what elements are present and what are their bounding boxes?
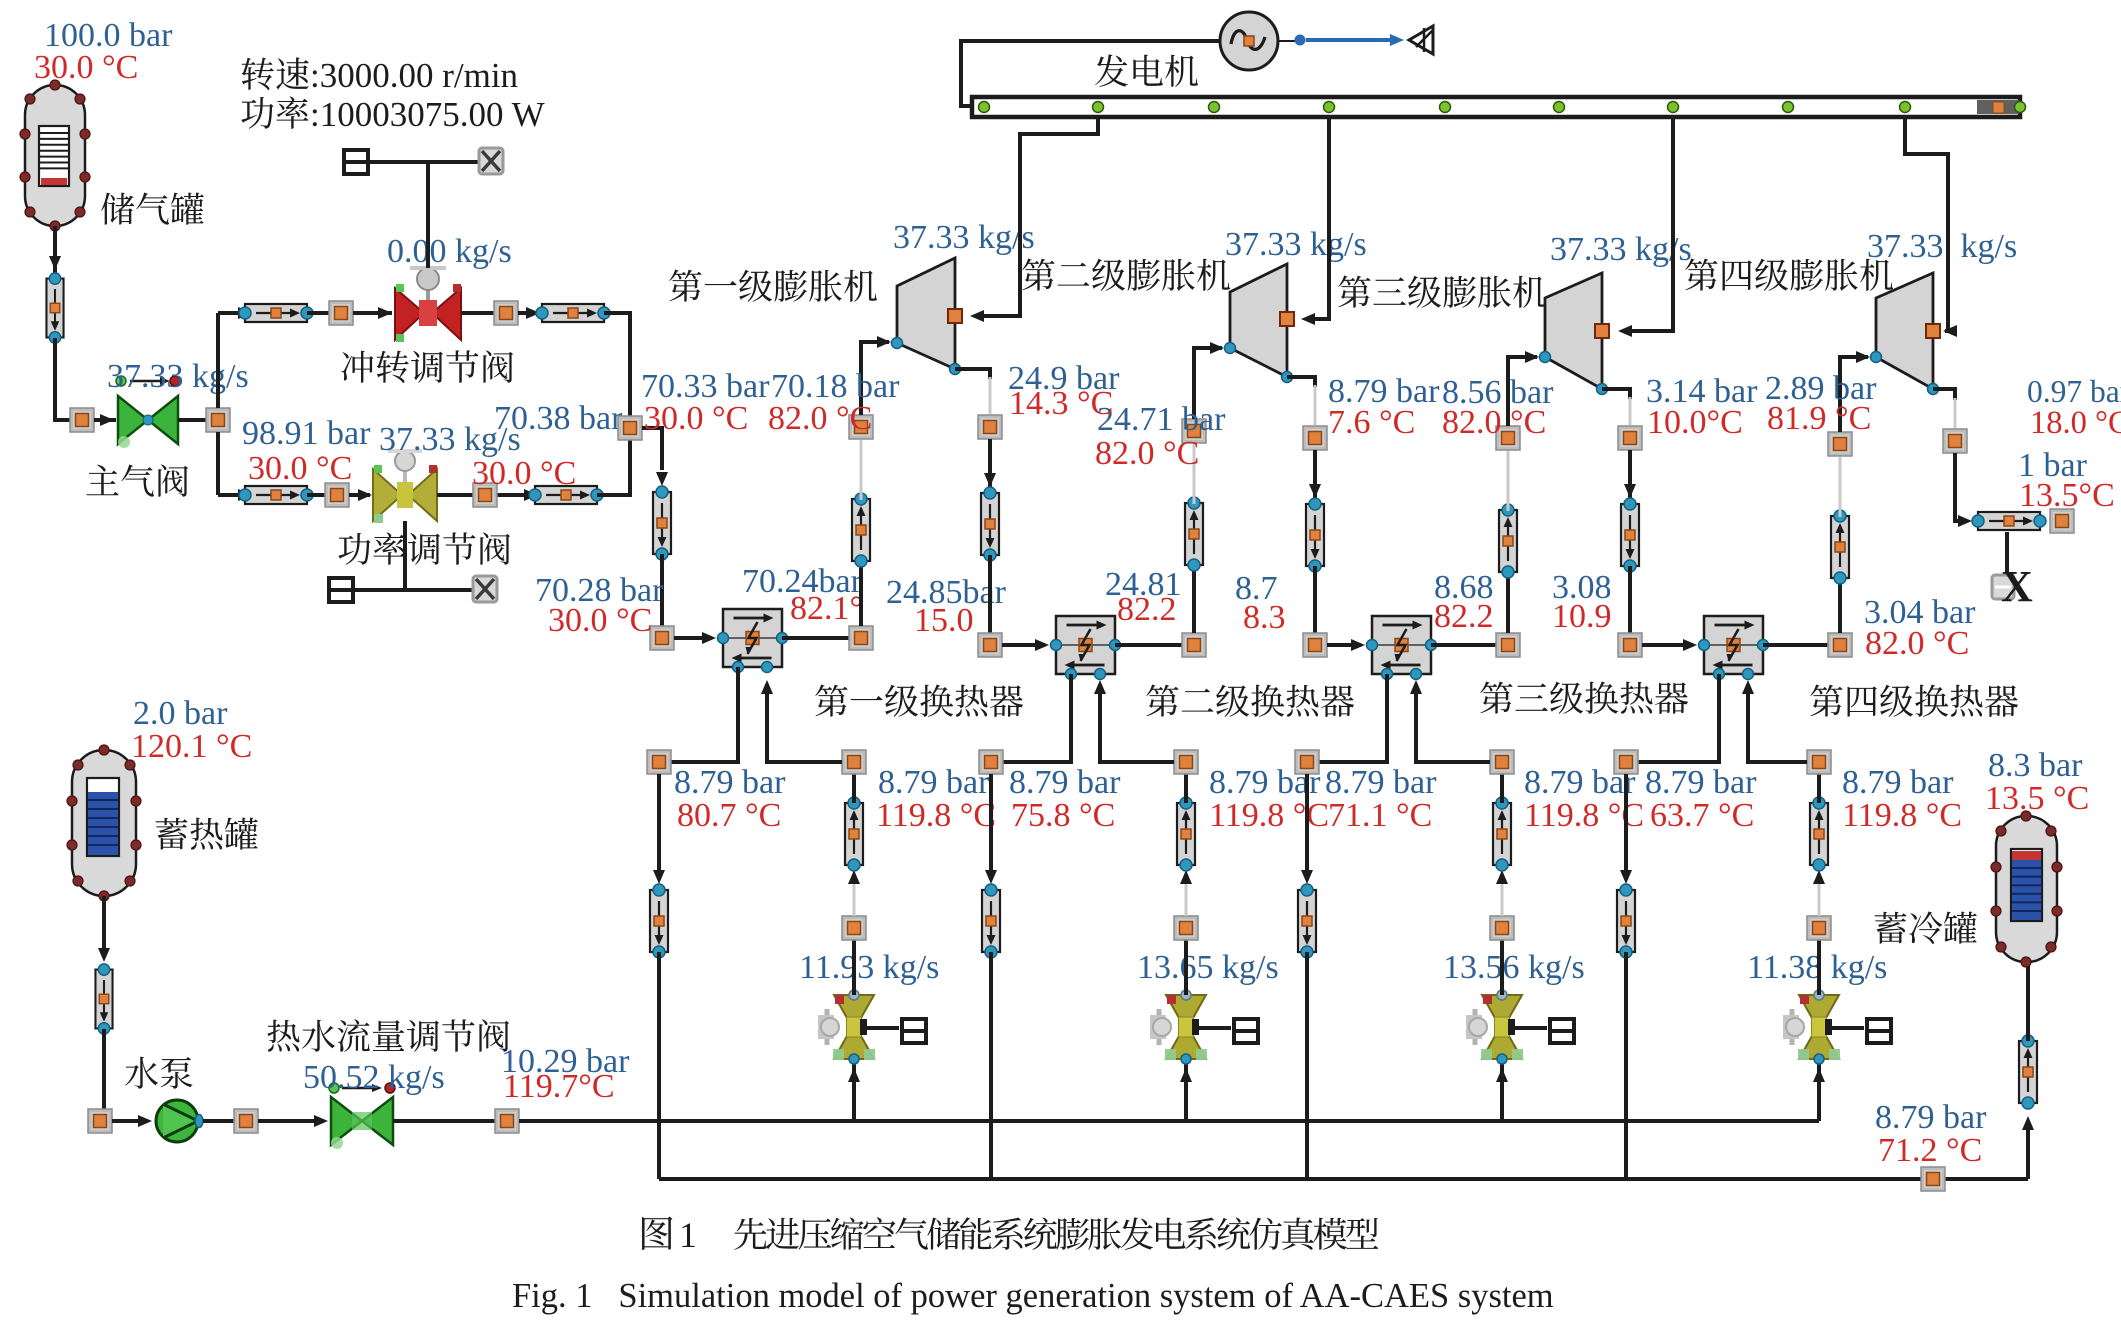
svg-text:0.00 kg/s: 0.00 kg/s	[387, 233, 512, 270]
svg-text:2.0 bar: 2.0 bar	[133, 695, 228, 732]
connector: water inlet leg 2 lower	[1174, 916, 1198, 940]
wire: upleg gray stub stage 2	[1193, 444, 1196, 504]
wire: hot tank outlet	[102, 896, 106, 952]
wire: HX3 outlet to connector	[1431, 643, 1496, 647]
heat exchanger 第四级换热器	[1699, 616, 1769, 680]
wire: valve 3 actuator link	[1515, 1026, 1547, 1030]
pipe: upleg pipe stage 3	[1499, 504, 1517, 578]
wire: bus tap to expander 3	[1624, 117, 1673, 331]
connector: HX3 air inlet	[1303, 633, 1327, 657]
svg-text:8.79 bar: 8.79 bar	[1325, 764, 1437, 801]
connector: after power valve	[473, 483, 497, 507]
svg-text:30.0 °C: 30.0 °C	[248, 450, 352, 487]
wire: to lower branch pipe 2	[524, 489, 538, 501]
wire: bus tap to expander 2	[1307, 117, 1329, 319]
wire: into HX3	[1327, 643, 1361, 647]
wire: downleg lower segment stage 1	[988, 555, 992, 633]
svg-text:8.3 bar: 8.3 bar	[1988, 747, 2083, 784]
connector: return header sensor	[1921, 1167, 1945, 1191]
wire: upleg lower segment stage 4	[1838, 520, 1842, 633]
wire: impulse valve outlet	[461, 311, 494, 315]
wire: gray stub inlet leg 4	[1818, 882, 1821, 916]
svg-text:37.33 kg/s: 37.33 kg/s	[1867, 228, 2017, 265]
wire: into main valve	[94, 418, 116, 422]
svg-text:70.38 bar: 70.38 bar	[494, 400, 623, 437]
wire: into HX4	[1642, 643, 1693, 647]
turbine expander 第四级膨胀机	[1871, 273, 1941, 395]
svg-text:119.8 °C: 119.8 °C	[1209, 797, 1329, 834]
wire: into power valve	[349, 493, 370, 497]
svg-text:X: X	[2001, 562, 2033, 611]
svg-text:13.65 kg/s: 13.65 kg/s	[1137, 949, 1279, 986]
wire: pipe to cold tank	[2026, 962, 2030, 1041]
torque source box (impulse valve)	[344, 150, 368, 174]
wire: HX3 water outlet to connector	[1319, 674, 1387, 762]
svg-text:8.79 bar: 8.79 bar	[1875, 1099, 1987, 1136]
label: 发电机	[1095, 54, 1198, 86]
water regulating valve V3 (olive globe valve)	[1466, 990, 1523, 1064]
heat exchanger 第三级换热器	[1367, 616, 1437, 680]
wire: inlet pipe to upper connector 4	[1817, 774, 1821, 803]
electrical bus bar	[972, 97, 2020, 117]
pipe: upper branch pipe 2	[536, 304, 610, 322]
water regulating valve V2 (olive globe valve)	[1150, 990, 1207, 1064]
wire: into HX2	[1002, 643, 1045, 647]
label: speed 转速:3000.00 r/min	[242, 57, 309, 89]
connector: upleg stage 4	[1828, 432, 1852, 456]
pipe: lower branch pipe 1	[239, 486, 313, 504]
pipe: upleg pipe stage 4	[1831, 510, 1849, 584]
wire: expander 3 outlet	[1602, 389, 1630, 399]
wire: to upper branch pipe 2	[518, 311, 540, 315]
impulse regulating valve 冲转调节阀 (red control valve)	[395, 268, 461, 342]
connector: before impulse valve	[329, 301, 353, 325]
connector: water inlet leg 3 upper	[1490, 750, 1514, 774]
wire: inlet leg 3 to HX bottom-right port	[1416, 684, 1490, 762]
wire: into HX1	[674, 636, 712, 640]
wire: merge to first heat exchanger downleg	[642, 428, 662, 470]
connector: upleg stage 1	[849, 415, 873, 439]
svg-text:80.7 °C: 80.7 °C	[677, 797, 781, 834]
pipe: water outlet pipe 2	[982, 884, 1000, 958]
wire: pipe to connector	[307, 311, 329, 315]
wire: pump discharge	[203, 1119, 234, 1123]
scope symbol (triangle)	[1409, 26, 1433, 54]
svg-text:30.0 °C: 30.0 °C	[34, 49, 138, 86]
svg-text:75.8 °C: 75.8 °C	[1011, 797, 1115, 834]
svg-text:71.2 °C: 71.2 °C	[1878, 1132, 1982, 1169]
connector: merge point of branches	[618, 416, 642, 440]
bus nodes (green)	[979, 102, 990, 113]
wire: hot tank pipe to pump row	[88, 1029, 104, 1121]
turbine expander 第一级膨胀机	[892, 258, 963, 375]
wire: outlet leg 2 to return header	[989, 952, 993, 1179]
svg-text:15.0: 15.0	[914, 602, 974, 639]
svg-text:37.33 kg/s: 37.33 kg/s	[1225, 226, 1367, 263]
wire: HX1 water outlet to connector	[671, 667, 738, 762]
hot water flow regulating valve 热水流量调节阀 (green)	[329, 1083, 395, 1149]
svg-text:119.7°C: 119.7°C	[503, 1068, 615, 1105]
svg-text:13.5 °C: 13.5 °C	[1985, 780, 2089, 817]
cold water storage tank 蓄冷罐	[1996, 816, 2057, 962]
wire: water return header	[659, 1177, 2028, 1181]
torque source box (power valve)	[329, 578, 353, 602]
pipe: water inlet pipe 4	[1810, 797, 1828, 871]
label: 第三级膨胀机	[1338, 276, 1546, 308]
connector: before power valve	[325, 483, 349, 507]
connector: HX1 air inlet	[650, 626, 674, 650]
torque source box (valve 4)	[1867, 1019, 1891, 1043]
svg-text:24.71 bar: 24.71 bar	[1097, 401, 1226, 438]
pipe: downleg pipe stage 3	[1621, 498, 1639, 572]
wire: gray stub inlet leg 1	[853, 882, 856, 916]
svg-text:119.8 °C: 119.8 °C	[1842, 797, 1962, 834]
pipe: upleg pipe stage 1	[852, 493, 870, 567]
wire: upleg to expander 1 inlet	[861, 342, 889, 415]
pipe: HX1 feed vertical pipe	[653, 486, 671, 560]
connector: water outlet leg 2	[979, 750, 1003, 774]
water regulating valve V1 (olive globe valve)	[818, 990, 875, 1064]
water pump 水泵	[156, 1100, 203, 1142]
svg-text:8.79 bar: 8.79 bar	[1842, 764, 1954, 801]
wire: exhaust down segment	[1955, 453, 1966, 521]
wire: inlet pipe to upper connector 1	[852, 774, 856, 803]
svg-text:8.79 bar: 8.79 bar	[878, 764, 990, 801]
pipe: lower branch pipe 2	[529, 486, 603, 504]
connector: expander 3 outlet	[1618, 426, 1642, 450]
label: 第三级换热器	[1480, 681, 1688, 714]
wire: downleg lower segment stage 3	[1628, 566, 1632, 633]
heat exchanger 第一级换热器	[718, 609, 788, 673]
pipe: water inlet pipe 1	[845, 797, 863, 871]
wire: upleg to expander 2 inlet	[1194, 348, 1222, 419]
connector: water inlet leg 4 upper	[1807, 750, 1831, 774]
wire: junction dropper to lower branch	[216, 432, 220, 495]
connector: before main air valve	[70, 408, 94, 432]
wire: gray stub inlet leg 3	[1501, 882, 1504, 916]
wire: supply riser to valve 2	[1184, 1062, 1188, 1121]
connector: HX1 air outlet	[849, 626, 873, 650]
label: 第四级膨胀机	[1685, 259, 1893, 291]
sensor X box (impulse valve)	[479, 148, 503, 174]
connector: HX2 air outlet	[1182, 633, 1206, 657]
svg-text:82.2: 82.2	[1434, 598, 1494, 635]
wire: downleg gray stub stage 2	[1314, 385, 1317, 425]
label: 功率调节阀	[338, 532, 510, 564]
wire: expander 4 outlet	[1933, 389, 1955, 400]
wire: HX4 water outlet to connector	[1638, 674, 1719, 762]
svg-text:81.9 °C: 81.9 °C	[1767, 400, 1871, 437]
sensor X box (power valve)	[473, 576, 497, 602]
wire: upper branch to merge point	[604, 313, 630, 416]
svg-text:120.1 °C: 120.1 °C	[131, 728, 252, 765]
svg-text:8.79 bar: 8.79 bar	[1009, 764, 1121, 801]
wire: HX2 water outlet to connector	[1003, 674, 1071, 762]
connector: water outlet leg 1	[647, 750, 671, 774]
exhaust sink box	[1992, 575, 2014, 599]
wire: inlet pipe to upper connector 2	[1184, 774, 1188, 803]
label: 储气罐	[101, 193, 204, 225]
svg-text:82.1°: 82.1°	[790, 590, 863, 627]
torque source box (valve 2)	[1234, 1019, 1258, 1043]
label: 蓄冷罐	[1875, 911, 1977, 943]
connector: water outlet leg 3	[1295, 750, 1319, 774]
pipe: water outlet pipe 3	[1298, 884, 1316, 958]
svg-text:Fig. 1 Simulation model of p: Fig. 1 Simulation model of power generat…	[512, 1277, 1554, 1315]
connector: expander 4 outlet	[1943, 429, 1967, 453]
wire: lower branch to merge point	[597, 440, 630, 495]
wire: valve to supply header connector	[393, 1119, 495, 1123]
label: 水泵	[125, 1057, 193, 1089]
wire: upleg lower segment stage 2	[1192, 507, 1196, 633]
svg-text:11.93 kg/s: 11.93 kg/s	[799, 949, 939, 986]
svg-text:37.33 kg/s: 37.33 kg/s	[1550, 231, 1692, 268]
wire: actuator crossbar (power valve)	[353, 588, 473, 592]
svg-text:30.0 °C: 30.0 °C	[644, 400, 748, 437]
wire: power valve stem down	[403, 521, 407, 590]
wire: downleg to pipe stage 1	[988, 439, 992, 489]
pipe: hot tank outlet pipe	[95, 964, 112, 1034]
label: 第二级换热器	[1146, 684, 1354, 717]
wire: downleg to pipe stage 2	[1313, 450, 1317, 500]
turbine expander 第三级膨胀机	[1540, 273, 1610, 395]
svg-text:13.56 kg/s: 13.56 kg/s	[1443, 949, 1585, 986]
wire: upleg to expander 3 inlet	[1508, 357, 1537, 426]
svg-text:50.52 kg/s: 50.52 kg/s	[303, 1059, 445, 1096]
wire: outlet leg 2 upper segment	[989, 774, 993, 876]
wire: outlet leg 4 to return header	[1624, 952, 1628, 1179]
pipe: exhaust horizontal pipe	[1972, 512, 2046, 530]
connector: upleg stage 3	[1496, 426, 1520, 450]
wire: pipe to connector	[307, 493, 325, 497]
wire: valve 1 to connector	[852, 940, 856, 995]
connector: HX3 air outlet	[1496, 633, 1520, 657]
wire: power valve outlet	[437, 493, 524, 497]
wire: inlet leg 1 to HX bottom-right port	[767, 684, 842, 762]
pipe: water outlet pipe 4	[1617, 884, 1635, 958]
wire: inlet leg 2 to HX bottom-right port	[1100, 684, 1174, 762]
wire: generator to bus left	[961, 41, 1220, 106]
connector: water inlet leg 4 lower	[1807, 916, 1831, 940]
svg-text:8.79 bar: 8.79 bar	[1645, 764, 1757, 801]
wire: valve 3 to connector	[1500, 940, 1504, 995]
wire: valve 2 actuator link	[1199, 1026, 1231, 1030]
wire: valve 4 actuator link	[1832, 1026, 1864, 1030]
connector: water outlet leg 4	[1614, 750, 1638, 774]
svg-text:30.0 °C: 30.0 °C	[548, 602, 652, 639]
connector: water inlet leg 2 upper	[1174, 750, 1198, 774]
connector: HX4 air inlet	[1618, 633, 1642, 657]
torque source box (valve 1)	[902, 1019, 926, 1043]
connector: HX2 air inlet	[978, 633, 1002, 657]
svg-text::10003075.00 W: :10003075.00 W	[310, 95, 545, 134]
svg-text:10.0°C: 10.0°C	[1647, 404, 1743, 441]
wire: into impulse valve	[353, 311, 392, 315]
hot water storage tank 蓄热罐	[72, 750, 136, 896]
svg-text:119.8 °C: 119.8 °C	[876, 797, 996, 834]
wire: downleg to pipe stage 3	[1628, 450, 1632, 500]
wire: lower branch start	[218, 493, 240, 497]
wire: exhaust gray stub	[1954, 398, 1957, 428]
pipe: water outlet pipe 1	[650, 884, 668, 958]
wire: supply riser to valve 3	[1500, 1062, 1504, 1121]
wire: generator output link	[1278, 40, 1296, 42]
svg-text:8.3: 8.3	[1243, 599, 1286, 636]
pipe: downleg pipe stage 1	[981, 487, 999, 561]
connector: pump discharge	[234, 1109, 258, 1133]
wire: junction riser to upper branch	[216, 313, 220, 408]
pipe: upper branch pipe 1	[239, 304, 313, 322]
wire: supply riser to valve 4	[1817, 1062, 1821, 1121]
svg-text:0.97 bar: 0.97 bar	[2027, 374, 2121, 409]
connector: water inlet leg 3 lower	[1490, 916, 1514, 940]
wire: upleg gray stub stage 3	[1507, 451, 1510, 511]
wire: outlet leg 4 upper segment	[1624, 774, 1628, 876]
connector: expander 1 outlet	[978, 415, 1002, 439]
wire: bus tap to expander 1	[976, 117, 1098, 316]
label: 热水流量调节阀	[267, 1019, 509, 1052]
wire: outlet leg 1 to return header	[657, 952, 661, 1179]
wire: valve to junction connector	[178, 418, 206, 422]
svg-text:82.0 °C: 82.0 °C	[768, 400, 872, 437]
label: 第一级膨胀机	[669, 270, 877, 302]
svg-text:1: 1	[679, 1215, 697, 1255]
svg-text:13.5°C: 13.5°C	[2019, 477, 2115, 514]
svg-text::3000.00 r/min: :3000.00 r/min	[310, 56, 518, 95]
air storage tank 储气罐	[25, 85, 85, 226]
label: power 功率:10003075.00 W	[241, 96, 308, 128]
wire: upper branch start	[218, 311, 240, 315]
label: 第一级换热器	[815, 684, 1023, 717]
svg-text:14.3 °C: 14.3 °C	[1009, 385, 1113, 422]
wire: upleg lower segment stage 3	[1506, 514, 1510, 633]
wire: actuator crossbar	[368, 160, 480, 164]
wire: to hot water regulating valve	[258, 1119, 324, 1123]
label: 冲转调节阀	[342, 350, 514, 383]
wire: tank outlet down	[53, 226, 57, 290]
wire: valve 4 to connector	[1817, 940, 1821, 995]
pipe: water inlet pipe 2	[1177, 797, 1195, 871]
pipe: water inlet pipe 3	[1493, 797, 1511, 871]
svg-text:10.9: 10.9	[1552, 598, 1612, 635]
connector: upleg stage 2	[1182, 419, 1206, 443]
wire: inlet pipe to upper connector 3	[1500, 774, 1504, 803]
svg-text:63.7 °C: 63.7 °C	[1650, 797, 1754, 834]
connector: supply header inlet	[495, 1109, 519, 1133]
wire: bus tap to expander 4	[1905, 117, 1948, 331]
generator 发电机 (synchronous machine)	[1220, 12, 1278, 70]
svg-text:37.33 kg/s: 37.33 kg/s	[893, 219, 1035, 256]
caption: figure title (Chinese)	[642, 1217, 672, 1250]
heat exchanger 第二级换热器	[1051, 616, 1121, 680]
wire: valve 1 actuator link	[867, 1026, 899, 1030]
wire: exhaust drop to sink	[2005, 532, 2009, 580]
wire: HX4 outlet to connector	[1763, 643, 1828, 647]
label: 主气阀	[86, 464, 188, 496]
wire: valve 2 to connector	[1184, 940, 1188, 995]
wire: upleg gray stub stage 1	[860, 440, 863, 500]
wire: pipe to main valve row	[55, 338, 70, 420]
wire: downleg gray stub stage 1	[989, 377, 992, 414]
svg-text:82.0 °C: 82.0 °C	[1865, 625, 1969, 662]
pipe: cold tank inlet pipe	[2019, 1035, 2037, 1109]
wire: expander 2 outlet	[1287, 377, 1315, 387]
main air valve 主气阀 (green gate valve)	[116, 376, 180, 448]
label: 第二级膨胀机	[1022, 259, 1230, 291]
label: 第四级换热器	[1810, 684, 2018, 717]
wire: return riser to cold tank	[2026, 1122, 2030, 1179]
svg-text:37.33 kg/s: 37.33 kg/s	[107, 358, 249, 395]
torque source box (valve 3)	[1550, 1019, 1574, 1043]
wire: upleg gray stub stage 4	[1839, 457, 1842, 517]
wire: downleg gray stub stage 3	[1629, 397, 1632, 425]
pipe: upleg pipe stage 2	[1185, 497, 1203, 571]
wire: hot water supply header	[519, 1119, 1819, 1123]
wire: HX2 outlet to connector	[1115, 643, 1182, 647]
pipe: downleg pipe stage 2	[1306, 498, 1324, 572]
connector: HX4 air outlet	[1828, 633, 1852, 657]
wire: expander 1 outlet	[955, 369, 990, 379]
wire: downleg to HX1 connector	[660, 554, 664, 626]
wire: outlet leg 1 upper segment	[657, 774, 661, 876]
connector: water inlet leg 1 upper	[842, 750, 866, 774]
connector: water inlet leg 1 lower	[842, 916, 866, 940]
wire: inlet leg 4 to HX bottom-right port	[1748, 684, 1807, 762]
wire: impulse valve stem up	[426, 162, 430, 268]
svg-text:71.1 °C: 71.1 °C	[1328, 797, 1432, 834]
connector: exhaust end	[2050, 509, 2074, 533]
wire: outlet leg 3 to return header	[1305, 952, 1309, 1179]
svg-text:82.2: 82.2	[1117, 591, 1177, 628]
wire: HX1 outlet to connector	[782, 636, 849, 640]
turbine expander 第二级膨胀机	[1225, 264, 1295, 383]
power regulating valve 功率调节阀 (olive control valve)	[373, 451, 437, 523]
pipe: tank outlet vertical pipe	[46, 273, 63, 343]
svg-text:82.0 °C: 82.0 °C	[1095, 435, 1199, 472]
svg-text:98.91 bar: 98.91 bar	[242, 415, 371, 452]
svg-text:18.0 °C: 18.0 °C	[2030, 405, 2121, 441]
wire: gray stub inlet leg 2	[1185, 882, 1188, 916]
svg-text:82.0 °C: 82.0 °C	[1442, 404, 1546, 441]
water regulating valve V4 (olive globe valve)	[1783, 990, 1840, 1064]
wire: supply riser to valve 1	[852, 1062, 856, 1121]
wire: upleg to expander 4 inlet	[1840, 357, 1868, 432]
connector: branch junction	[206, 408, 230, 432]
connector: pump suction	[88, 1109, 112, 1133]
connector: expander 2 outlet	[1303, 426, 1327, 450]
label: 蓄热罐	[156, 818, 258, 850]
wire: into pump	[112, 1119, 148, 1123]
svg-text:7.6 °C: 7.6 °C	[1328, 404, 1415, 441]
wire: outlet leg 3 upper segment	[1305, 774, 1309, 876]
wire: downleg lower segment stage 2	[1313, 566, 1317, 633]
svg-text:8.79 bar: 8.79 bar	[674, 764, 786, 801]
wire: upleg lower segment stage 1	[859, 503, 863, 626]
connector: after impulse valve	[494, 301, 518, 325]
